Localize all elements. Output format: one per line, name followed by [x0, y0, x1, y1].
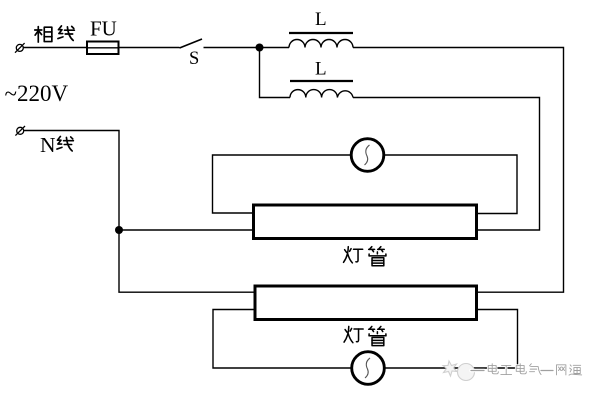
terminal: phase line input — [15, 43, 25, 53]
svg-text:S: S — [189, 49, 199, 69]
fuse FU — [87, 42, 119, 55]
watermark text halo — [471, 364, 582, 375]
wire: fuse to switch — [119, 47, 180, 49]
wire: neutral run to lamp2 left upper pin — [24, 131, 256, 293]
wire: starter1 left loop to lamp1 left upper pin — [213, 155, 352, 213]
wire: node A down to L2 — [260, 48, 291, 98]
wire: starter1 right loop to lamp1 right upper pin — [383, 155, 517, 214]
wire: L1 to right rail down to lamp2 right upper pin — [353, 48, 564, 293]
wire: node A to L1 — [260, 47, 290, 49]
starter U2 — [352, 352, 385, 385]
lamp tube 2 (灯管) — [255, 286, 477, 320]
watermark — [443, 361, 582, 381]
svg-text:~220V: ~220V — [5, 81, 69, 106]
node B (junction on neutral rail) — [115, 226, 123, 234]
wire: terminal to fuse — [23, 47, 87, 49]
lamp tube 1 (灯管) — [254, 205, 477, 239]
svg-text:N: N — [40, 133, 56, 157]
wire: L2 to rail down to lamp1 right lower pin — [353, 98, 540, 231]
switch S — [180, 39, 260, 48]
wire: node B to lamp1 left lower pin — [119, 229, 252, 231]
node A (junction dot) — [256, 44, 264, 52]
wire: starter2 right loop to lamp2 right lower pin — [384, 310, 518, 369]
label 灯管 (lamp1) — [344, 247, 363, 263]
terminal: neutral input — [15, 126, 25, 136]
svg-text:L: L — [315, 9, 327, 30]
inductor L2 — [290, 81, 353, 98]
starter U1 — [351, 139, 384, 172]
svg-text:L: L — [315, 58, 327, 79]
svg-text:FU: FU — [90, 17, 117, 41]
label 灯管 (lamp2) — [344, 326, 363, 342]
wire: lamp2 left lower pin to starter2 — [213, 310, 352, 369]
watermark text — [471, 364, 582, 375]
label 相线 — [35, 27, 52, 42]
watermark icon — [443, 361, 475, 381]
inductor L1 — [289, 33, 353, 48]
